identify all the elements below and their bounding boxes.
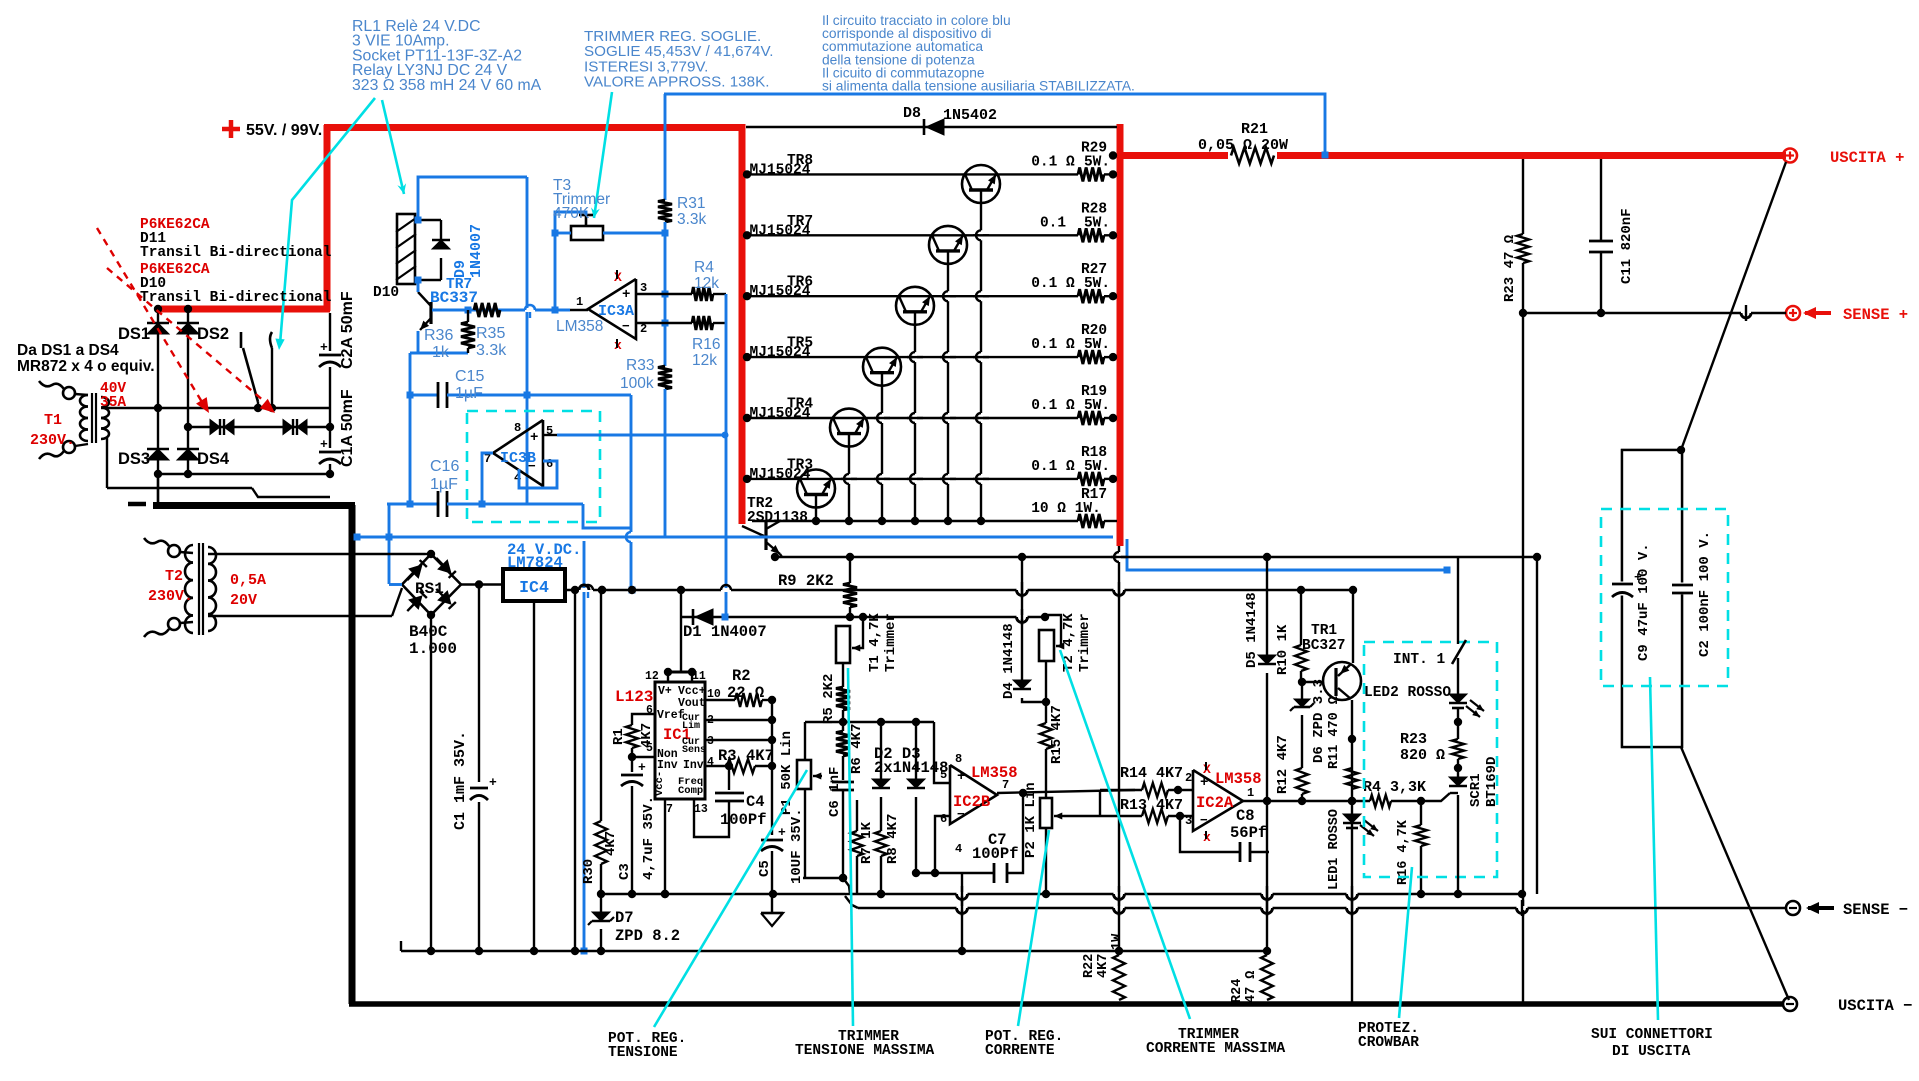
svg-text:8: 8 [514,421,521,435]
svg-text:C2A 50mF: C2A 50mF [339,291,356,369]
svg-text:+: + [1200,775,1208,791]
svg-text:DS3: DS3 [118,450,150,468]
svg-text:100Pf: 100Pf [720,811,767,829]
svg-text:0.1 Ω: 0.1 Ω [1031,398,1075,414]
svg-text:R7 1K: R7 1K [859,821,875,864]
svg-text:820 Ω: 820 Ω [1400,747,1445,764]
svg-text:R13 4K7: R13 4K7 [1120,797,1183,814]
svg-text:MJ15024: MJ15024 [750,223,811,239]
svg-text:R6 4K7: R6 4K7 [849,724,865,774]
svg-text:D6 ZPD 3.3: D6 ZPD 3.3 [1311,679,1327,763]
svg-text:4,7uF 35V.: 4,7uF 35V. [641,796,657,880]
svg-text:3: 3 [707,735,714,748]
svg-text:1k: 1k [432,344,450,361]
svg-text:R24: R24 [1230,979,1245,1003]
svg-text:IC2A: IC2A [1196,794,1234,812]
svg-text:D4 1N4148: D4 1N4148 [1001,623,1017,699]
svg-text:0.1: 0.1 [1040,215,1066,231]
svg-text:Lim: Lim [682,720,700,732]
svg-text:LED2 ROSSO: LED2 ROSSO [1364,685,1451,701]
svg-text:10 Ω 1W.: 10 Ω 1W. [1031,501,1101,517]
svg-text:0.1 Ω: 0.1 Ω [1031,337,1075,353]
svg-text:+: + [638,760,646,775]
svg-text:R1: R1 [611,728,627,745]
svg-text:R15 4K7: R15 4K7 [1049,705,1065,764]
svg-text:6: 6 [546,457,553,471]
svg-text:10UF 35V.: 10UF 35V. [789,808,805,884]
svg-text:0,05 Ω 20W: 0,05 Ω 20W [1198,137,1288,154]
svg-text:R35: R35 [476,325,505,342]
svg-text:LED1 ROSSO: LED1 ROSSO [1327,809,1342,890]
svg-text:R11 470 Ω: R11 470 Ω [1327,696,1342,769]
svg-text:5W.: 5W. [1084,459,1110,475]
svg-text:R23 47 Ω: R23 47 Ω [1502,234,1518,302]
svg-text:12k: 12k [692,352,717,369]
svg-text:R31: R31 [677,195,705,212]
svg-text:4K7: 4K7 [639,723,655,748]
svg-text:C15: C15 [455,368,484,385]
svg-text:SENSE +: SENSE + [1843,306,1908,324]
svg-text:TR1: TR1 [1311,623,1337,639]
svg-text:C16: C16 [430,458,459,475]
svg-text:D9: D9 [452,260,469,278]
svg-text:Vref: Vref [657,709,685,722]
svg-text:C3: C3 [617,863,633,880]
svg-text:12: 12 [645,670,659,683]
svg-text:R16 4,7K: R16 4,7K [1396,819,1411,885]
svg-text:5: 5 [940,768,947,782]
svg-text:C1A 50mF: C1A 50mF [339,389,356,467]
svg-text:+: + [489,775,497,790]
svg-text:47 Ω: 47 Ω [1244,971,1259,1003]
svg-text:R9 2K2: R9 2K2 [778,572,834,590]
svg-text:0.1 Ω: 0.1 Ω [1031,154,1075,170]
svg-text:−: − [622,319,630,334]
svg-text:1.000: 1.000 [409,640,457,658]
svg-text:MJ15024: MJ15024 [750,345,811,361]
svg-text:R30: R30 [581,859,597,884]
svg-text:Inv: Inv [657,759,678,772]
svg-text:IC2B: IC2B [953,793,990,811]
svg-text:D7: D7 [615,909,634,927]
svg-text:56Pf: 56Pf [1230,824,1267,842]
svg-text:T2: T2 [165,568,183,585]
svg-text:C5: C5 [757,860,773,877]
svg-text:C6 1nF: C6 1nF [827,767,843,817]
svg-text:5W.: 5W. [1084,276,1110,292]
svg-text:−: − [528,459,536,474]
svg-text:R21: R21 [1241,121,1268,138]
svg-text:MR872 x 4 o equiv.: MR872 x 4 o equiv. [17,358,155,375]
svg-text:LM358: LM358 [971,764,1018,782]
svg-text:2x1N4148: 2x1N4148 [874,759,948,777]
svg-text:TENSIONE MASSIMA: TENSIONE MASSIMA [795,1043,935,1059]
svg-text:SCR1: SCR1 [1468,773,1484,807]
svg-text:470K: 470K [553,205,590,222]
svg-text:D1 1N4007: D1 1N4007 [683,623,767,641]
svg-text:SUI CONNETTORI: SUI CONNETTORI [1591,1027,1713,1043]
svg-text:CORRENTE: CORRENTE [985,1043,1055,1059]
svg-text:DS1: DS1 [118,325,150,343]
svg-text:8: 8 [955,752,962,766]
svg-text:R5 2K2: R5 2K2 [821,674,837,724]
svg-text:6: 6 [940,812,947,826]
svg-text:LM358: LM358 [556,318,603,335]
svg-text:D8: D8 [903,105,921,122]
svg-text:3.3k: 3.3k [476,342,507,359]
svg-text:C1 1mF 35V.: C1 1mF 35V. [452,731,469,830]
svg-text:1µF: 1µF [430,476,458,493]
svg-text:4K7: 4K7 [1096,954,1111,978]
svg-text:0.1 Ω: 0.1 Ω [1031,459,1075,475]
svg-text:si alimenta dalla tensione aus: si alimenta dalla tensione ausiliaria ST… [822,79,1135,94]
svg-text:3.3k: 3.3k [677,211,707,228]
svg-text:MJ15024: MJ15024 [750,162,811,178]
svg-text:Vcc-: Vcc- [654,771,666,796]
svg-text:22 Ω: 22 Ω [727,684,764,702]
svg-text:DS4: DS4 [197,450,230,468]
svg-text:230V.: 230V. [30,432,75,449]
svg-text:VALORE APPROSS. 138K.: VALORE APPROSS. 138K. [584,74,769,91]
svg-text:R33: R33 [626,357,654,374]
svg-text:USCITA +: USCITA + [1830,149,1904,167]
svg-text:DS2: DS2 [197,325,229,343]
svg-text:4: 4 [955,842,962,856]
svg-text:R12 4K7: R12 4K7 [1275,735,1291,794]
svg-text:20V: 20V [230,592,257,609]
svg-text:LM358: LM358 [1215,770,1262,788]
svg-text:V+: V+ [658,685,672,698]
svg-text:−: − [1200,813,1208,828]
svg-text:+: + [622,287,630,303]
svg-text:13: 13 [694,803,708,816]
svg-text:+: + [530,430,538,446]
svg-text:Inv: Inv [683,759,704,772]
svg-text:7: 7 [666,803,673,816]
svg-text:Transil Bi-directional: Transil Bi-directional [140,245,332,261]
svg-text:ZPD 8.2: ZPD 8.2 [615,927,680,945]
svg-text:1N5402: 1N5402 [943,107,997,124]
svg-text:MJ15024: MJ15024 [750,284,811,300]
svg-text:B40C: B40C [409,623,448,641]
svg-text:MJ15024: MJ15024 [750,406,811,422]
svg-text:+: + [320,437,328,452]
svg-text:3: 3 [1185,814,1192,828]
svg-text:LM7824: LM7824 [507,554,563,572]
svg-text:TENSIONE: TENSIONE [608,1045,678,1061]
svg-text:0.1 Ω: 0.1 Ω [1031,276,1075,292]
svg-text:55V. / 99V.: 55V. / 99V. [246,122,322,139]
svg-text:Da DS1 a DS4: Da DS1 a DS4 [17,342,119,359]
svg-text:R14 4K7: R14 4K7 [1120,765,1183,782]
svg-text:C2 100nF 100 V.: C2 100nF 100 V. [1697,531,1713,657]
svg-text:BC337: BC337 [430,289,478,307]
svg-text:+: + [778,825,786,840]
svg-text:C9 47uF 100 V.: C9 47uF 100 V. [1636,543,1652,661]
svg-text:C4: C4 [746,793,765,811]
svg-text:C11 820nF: C11 820nF [1619,208,1635,284]
svg-text:100Pf: 100Pf [972,845,1019,863]
svg-text:C8: C8 [1236,807,1255,825]
svg-text:DI USCITA: DI USCITA [1612,1044,1691,1060]
svg-text:100k: 100k [620,375,654,392]
svg-text:USCITA −: USCITA − [1838,997,1912,1015]
svg-text:T1: T1 [44,412,62,429]
svg-text:12k: 12k [694,275,719,292]
svg-text:1: 1 [1247,786,1254,800]
svg-text:BT169D: BT169D [1484,757,1500,807]
svg-text:R2: R2 [732,667,751,685]
svg-text:Transil Bi-directional: Transil Bi-directional [140,290,332,306]
svg-text:R22: R22 [1082,954,1097,978]
svg-text:BC327: BC327 [1302,638,1346,654]
svg-text:Trimmer: Trimmer [1077,613,1093,672]
svg-text:R4 3,3K: R4 3,3K [1363,779,1426,796]
svg-text:Comp: Comp [678,785,703,797]
svg-text:+: + [957,769,965,785]
svg-text:2: 2 [1185,771,1192,785]
svg-text:5W.: 5W. [1084,398,1110,414]
svg-text:5W.: 5W. [1084,337,1110,353]
svg-text:D10: D10 [373,285,399,301]
svg-text:T1 4,7K: T1 4,7K [867,613,883,672]
svg-text:1µF: 1µF [455,385,483,402]
svg-text:R4: R4 [694,259,714,276]
svg-text:CORRENTE MASSIMA: CORRENTE MASSIMA [1146,1041,1286,1057]
svg-text:5W.: 5W. [1084,154,1110,170]
svg-text:R10 1K: R10 1K [1275,624,1291,675]
svg-text:R23: R23 [1400,731,1427,748]
svg-text:+: + [320,340,328,355]
svg-text:D5 1N4148: D5 1N4148 [1244,592,1260,668]
svg-text:1: 1 [576,295,583,309]
svg-text:5W.: 5W. [1084,215,1110,231]
svg-text:R8 4K7: R8 4K7 [885,814,901,864]
svg-text:323 Ω 358 mH 24 V 60 mA: 323 Ω 358 mH 24 V 60 mA [352,77,542,94]
svg-text:SENSE −: SENSE − [1843,901,1908,919]
svg-text:INT. 1: INT. 1 [1393,652,1446,668]
svg-text:1N4007: 1N4007 [468,224,485,278]
svg-text:0,5A: 0,5A [230,572,266,589]
svg-text:R16: R16 [692,336,720,353]
svg-text:P2 1K Lin: P2 1K Lin [1023,782,1039,858]
svg-text:Sens: Sens [682,745,706,756]
svg-text:IC4: IC4 [519,578,549,597]
svg-text:CROWBAR: CROWBAR [1358,1035,1419,1051]
svg-text:230V.: 230V. [148,588,193,605]
svg-text:Trimmer: Trimmer [883,613,899,672]
svg-text:4K7: 4K7 [603,831,619,856]
svg-text:4K7: 4K7 [746,747,774,765]
svg-text:RS1: RS1 [415,580,444,598]
svg-text:R36: R36 [424,327,453,344]
